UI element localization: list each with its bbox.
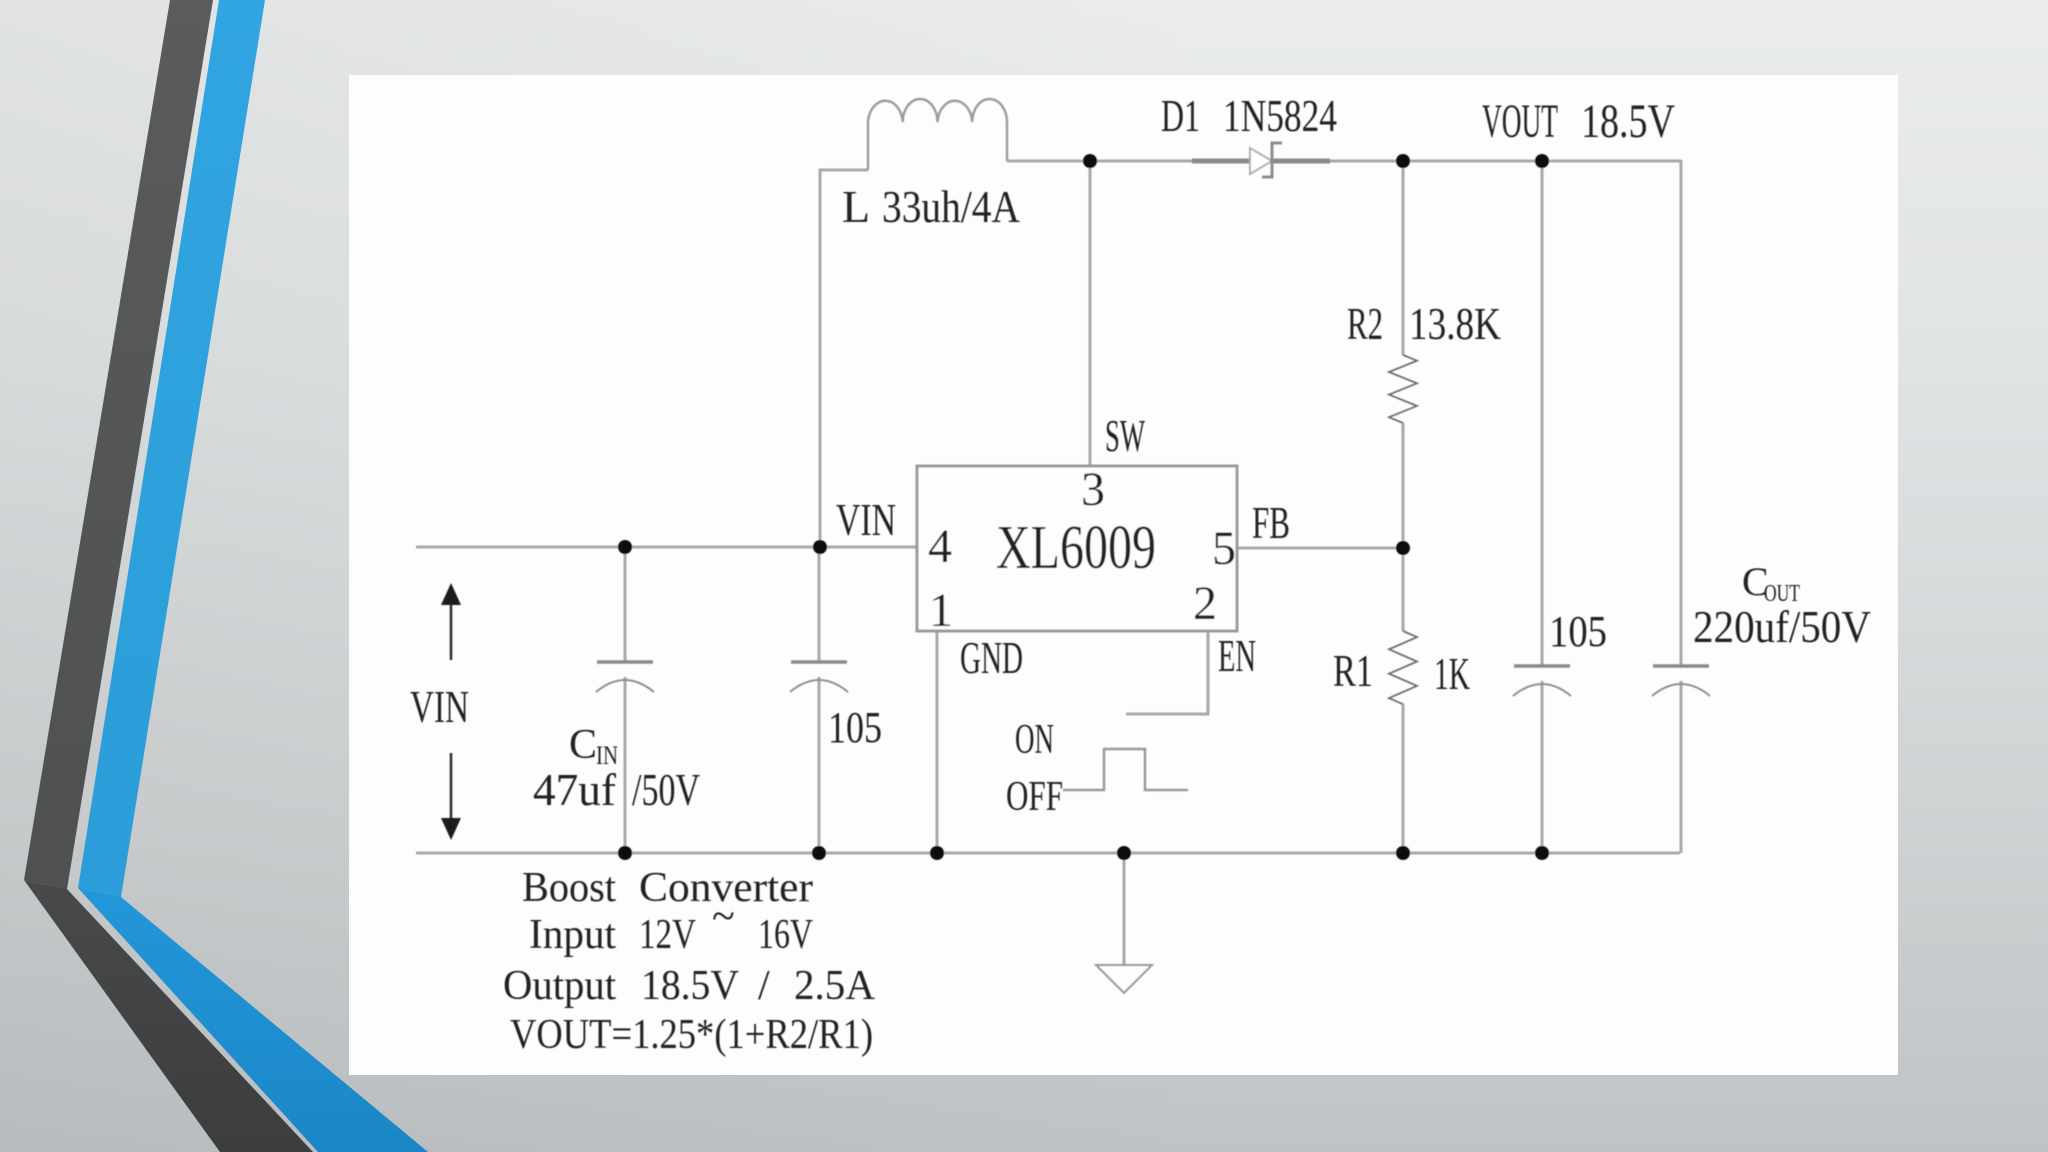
wire FB pin 5 to node	[1237, 547, 1403, 550]
svg-text:5: 5	[1212, 522, 1236, 575]
svg-text:R1: R1	[1333, 645, 1373, 696]
ON OFF pulse waveform	[1063, 749, 1188, 790]
wire R2 bottom to FB node	[1402, 423, 1405, 631]
node ground / R1	[1396, 846, 1410, 860]
label R1 value	[1333, 645, 1470, 699]
wire EN pin 2 hook	[1126, 631, 1208, 714]
svg-text:3: 3	[1081, 463, 1105, 516]
svg-text:/: /	[758, 963, 770, 1009]
svg-text:18.5V: 18.5V	[641, 963, 739, 1009]
wire SW node to pin 3	[1089, 161, 1092, 466]
svg-text:1K: 1K	[1434, 648, 1470, 699]
capacitor C3 plates	[1513, 666, 1571, 696]
wire VIN rail	[416, 546, 917, 549]
diode D1 schottky bar	[1262, 143, 1282, 177]
svg-text:SW: SW	[1105, 410, 1145, 461]
svg-text:Output: Output	[503, 963, 616, 1009]
node VIN rail / CIN	[618, 540, 632, 554]
node ground / CIN	[618, 846, 632, 860]
node SW	[1083, 154, 1097, 168]
svg-text:VOUT=1.25*(1+R2/R1): VOUT=1.25*(1+R2/R1)	[510, 1012, 873, 1058]
svg-text:D1: D1	[1161, 90, 1200, 141]
wire capacitor C2 top lead	[818, 547, 821, 662]
svg-text:OFF: OFF	[1006, 774, 1063, 820]
diode D1 triangle	[1250, 148, 1272, 174]
svg-text:4: 4	[928, 520, 952, 573]
wire capacitor C2 bottom lead	[818, 677, 821, 853]
svg-text:~: ~	[712, 894, 735, 940]
svg-text:GND: GND	[960, 632, 1023, 683]
node ground / C2	[812, 846, 826, 860]
svg-text:Input: Input	[529, 912, 616, 958]
label R2 value	[1347, 298, 1501, 349]
svg-text:C: C	[569, 722, 597, 768]
svg-text:105: 105	[828, 703, 882, 752]
resistor R1 zigzag	[1389, 631, 1417, 704]
svg-text:FB: FB	[1252, 497, 1290, 548]
wire GND pin 1	[936, 631, 939, 853]
svg-text:VOUT: VOUT	[1482, 95, 1558, 148]
svg-text:Boost: Boost	[522, 865, 616, 911]
label D1	[1161, 90, 1337, 141]
svg-text:L: L	[842, 181, 870, 232]
wire ground rail	[416, 852, 1680, 855]
ground symbol	[1096, 965, 1152, 993]
label CIN	[569, 722, 618, 770]
caption line 2	[529, 894, 813, 958]
capacitor C2 plates	[790, 662, 848, 692]
resistor R2 zigzag	[1389, 355, 1417, 423]
wire COUT top lead	[1680, 161, 1683, 666]
wire capacitor C3 bottom lead	[1541, 681, 1544, 853]
svg-text:13.8K: 13.8K	[1409, 298, 1501, 349]
svg-text:105: 105	[1549, 607, 1607, 656]
wire CIN top lead	[624, 547, 627, 662]
node ground / C3	[1535, 846, 1549, 860]
svg-text:47uf: 47uf	[533, 764, 617, 815]
VIN range arrow	[441, 583, 461, 840]
svg-text:1N5824: 1N5824	[1223, 90, 1337, 141]
svg-text:16V: 16V	[758, 912, 813, 958]
wire ground stem	[1123, 853, 1126, 965]
capacitor CIN plates	[596, 662, 654, 692]
svg-text:XL6009: XL6009	[996, 514, 1156, 582]
svg-text:1: 1	[929, 584, 953, 637]
IC U1 XL6009 box	[917, 466, 1237, 631]
wire R1 bottom lead	[1402, 704, 1405, 853]
inductor L1 coil	[868, 99, 1007, 170]
svg-text:VIN: VIN	[410, 681, 469, 732]
label VOUT 18.5V	[1482, 95, 1675, 148]
svg-text:2: 2	[1193, 577, 1217, 630]
svg-text:33uh/4A: 33uh/4A	[882, 181, 1020, 232]
capacitor COUT plates	[1652, 666, 1710, 696]
caption line 1	[522, 865, 813, 911]
node ground / stem	[1117, 846, 1131, 860]
svg-text:12V: 12V	[639, 912, 696, 958]
wire R2 top lead	[1402, 161, 1405, 355]
caption line 3	[503, 963, 876, 1009]
wire VOUT top rail	[1007, 160, 1682, 163]
svg-text:2.5A: 2.5A	[794, 963, 876, 1009]
label COUT	[1742, 559, 1800, 607]
svg-text:220uf/50V: 220uf/50V	[1693, 601, 1871, 652]
svg-text:ON: ON	[1015, 717, 1054, 763]
svg-text:EN: EN	[1218, 630, 1256, 681]
label L1 value	[842, 181, 1020, 232]
node VIN rail / C2	[813, 540, 827, 554]
svg-text:/50V: /50V	[632, 764, 700, 815]
node VOUT / R2	[1396, 154, 1410, 168]
diode D1 lead	[1192, 159, 1330, 164]
wire CIN bottom lead	[624, 677, 627, 853]
node FB	[1396, 541, 1410, 555]
label CIN value	[533, 764, 700, 815]
svg-text:R2: R2	[1347, 298, 1383, 349]
svg-text:VIN: VIN	[836, 494, 896, 545]
svg-text:18.5V: 18.5V	[1581, 95, 1675, 148]
schematic panel background	[349, 75, 1898, 1075]
wire capacitor C3 top lead	[1541, 161, 1544, 666]
node VOUT / C3	[1535, 154, 1549, 168]
node ground / pin1	[930, 846, 944, 860]
wire inductor left jog	[820, 170, 868, 547]
wire COUT bottom lead	[1680, 681, 1683, 853]
